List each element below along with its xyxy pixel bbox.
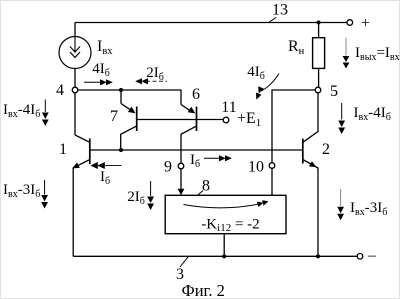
svg-text:2: 2 [322, 141, 330, 158]
transistor 7 (PNP) [121, 90, 137, 150]
svg-text:Фиг. 2: Фиг. 2 [182, 281, 225, 299]
svg-text:2Iб: 2Iб [127, 189, 145, 207]
arrow down Iвх-3Iб right [337, 189, 344, 220]
svg-text:13: 13 [272, 2, 288, 19]
terminal - (minus output) [357, 253, 363, 259]
svg-text:7: 7 [110, 108, 118, 125]
wire: current source lower lead to node 4 [74, 69, 76, 88]
resistor Rн [313, 23, 325, 88]
arrow 2Iб left [135, 78, 167, 84]
transistor 1 (NPN) [72, 135, 90, 256]
junction dot T2 emitter to rail [316, 254, 320, 258]
svg-text:Iвх-4Iб: Iвх-4Iб [3, 102, 40, 120]
svg-text:-Ki12 = -2: -Ki12 = -2 [201, 216, 259, 234]
wire: node 10 to box 8 [271, 168, 273, 195]
wire: node 4 to T6 emitter corner [78, 90, 181, 105]
node 5 [315, 87, 321, 93]
wire: node 4 down to T1 collector [74, 93, 76, 135]
terminal + (plus output) [347, 20, 353, 26]
svg-text:–: – [367, 247, 377, 264]
arrow down Iвх-3Iб left [41, 180, 48, 209]
svg-text:+: + [361, 15, 370, 32]
junction dot T7 collector to base line [119, 148, 123, 152]
svg-text:Iб: Iб [100, 169, 110, 187]
tick for label 13 [270, 18, 277, 22]
wire: base line T7-T6 to node 11 [137, 119, 224, 121]
wire: base line T1-T2 [90, 149, 303, 151]
box 8 (amplifier -Ki12=-2) [165, 195, 286, 234]
wire: current source upper lead [74, 23, 76, 37]
wire: node 5 to node 10 [272, 90, 315, 163]
wire: top positive rail 13 [75, 22, 347, 24]
svg-text:9: 9 [164, 159, 172, 176]
node 4 [72, 87, 78, 93]
svg-text:Iб: Iб [190, 152, 200, 170]
svg-text:1: 1 [59, 141, 67, 158]
svg-text:6: 6 [192, 86, 200, 103]
svg-text:Iвх-3Iб: Iвх-3Iб [350, 200, 387, 218]
arrow Iб left (into T1 base) [90, 162, 121, 169]
wire: bottom negative rail [73, 255, 357, 257]
junction dot top rail to resistor [317, 20, 321, 24]
node 11 [223, 117, 229, 123]
junction dot node 4 branch [119, 88, 123, 92]
svg-text:10: 10 [248, 159, 264, 176]
wire: box 8 ground stub [223, 234, 225, 257]
current source Iвх [59, 37, 91, 69]
tick for label 3 [180, 256, 189, 267]
svg-text:Iвх: Iвх [97, 38, 113, 57]
svg-text:5: 5 [330, 83, 338, 100]
svg-text:+E1: +E1 [237, 110, 261, 129]
svg-text:11: 11 [221, 99, 236, 116]
svg-text:8: 8 [202, 178, 210, 195]
svg-text:Iвх-4Iб: Iвх-4Iб [354, 105, 391, 123]
arrow down Iвх-4Iб left [42, 100, 49, 127]
wire: node 9 to box 8 with arrow [178, 169, 185, 195]
transistor 6 (PNP) [181, 105, 197, 164]
svg-text:2Iб: 2Iб [146, 65, 164, 83]
arrow down Iвх-4Iб right [338, 103, 345, 134]
svg-text:Iвых=Iвх: Iвых=Iвх [355, 45, 400, 63]
arrow 4Iб right [84, 79, 113, 85]
node 9 [178, 163, 184, 169]
svg-text:Rн: Rн [288, 38, 305, 57]
svg-text:4Iб: 4Iб [247, 64, 265, 82]
junction dot box 8 to rail [222, 254, 226, 258]
transistor 2 (NPN) [303, 93, 318, 256]
svg-text:4: 4 [56, 82, 64, 99]
svg-text:4Iб: 4Iб [92, 61, 110, 79]
curved arrow 4Iб [256, 74, 279, 100]
tick for label 8 [198, 191, 204, 196]
arrow Iб right (node 9) [204, 155, 232, 161]
svg-text:Iвх-3Iб: Iвх-3Iб [3, 182, 40, 200]
node 10 [269, 163, 275, 169]
arrow down Iвых [343, 38, 350, 69]
arrow down 2Iб [147, 181, 154, 210]
